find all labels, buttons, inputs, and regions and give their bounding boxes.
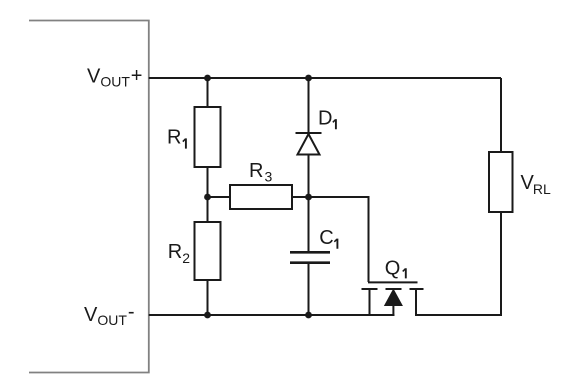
supply module box (open left) [29, 21, 149, 373]
transistor Q1 drain lead [415, 289, 417, 316]
transistor Q1 source lead [369, 289, 371, 316]
transistor Q1 gate plate [368, 281, 418, 283]
svg-text:R3: R3 [249, 160, 272, 185]
svg-text:Q: Q [385, 257, 401, 279]
svg-text:VOUT+: VOUT+ [87, 65, 142, 89]
junction dot top rail D1 [305, 75, 312, 82]
wire: Vout+ top rail [149, 77, 501, 79]
resistor R2 [195, 222, 221, 280]
resistor R3 [230, 185, 292, 209]
junction dot mid node [305, 194, 312, 201]
capacitor C1 top plate [290, 251, 330, 254]
wire: D1 to mid node [308, 155, 310, 198]
wire: R2 to bottom rail [207, 280, 209, 315]
wire: top rail to D1 [308, 78, 310, 133]
wire: R1 to R2 through node [207, 167, 209, 222]
svg-text:R2: R2 [168, 241, 190, 266]
junction dot top rail R1 [204, 75, 211, 82]
wire: Vout- bottom rail [149, 314, 395, 316]
svg-text:VOUT-: VOUT- [84, 301, 135, 328]
wire: node to R3 [208, 196, 231, 198]
transistor Q1 body arrow [385, 290, 402, 306]
wire: right column down to VRL [500, 78, 502, 152]
wire: top rail to R1 [207, 78, 209, 107]
resistor R1 [195, 107, 221, 167]
capacitor C1 bottom plate [290, 261, 330, 264]
diode D1 cathode bar [296, 132, 322, 134]
wire: drain bottom wire [416, 314, 502, 316]
wire: R3 to mid node and gate bend [292, 197, 369, 282]
junction dot bottom rail C1 [305, 312, 312, 319]
transistor Q1 body lead [392, 305, 394, 316]
diode D1 triangle [298, 134, 320, 155]
wire: mid node to C1 [308, 197, 310, 251]
svg-text:R: R [167, 127, 181, 149]
wire: VRL bottom down [500, 212, 502, 315]
transistor Q1 channel segments [362, 288, 424, 290]
svg-text:VRL: VRL [521, 172, 551, 197]
junction dot bottom rail R2 [204, 312, 211, 319]
svg-text:C: C [319, 227, 333, 249]
resistor VRL [489, 152, 513, 212]
junction dot node R1 R2 R3 [204, 194, 211, 201]
svg-text:D: D [318, 107, 332, 129]
wire: C1 to bottom rail [308, 264, 310, 315]
